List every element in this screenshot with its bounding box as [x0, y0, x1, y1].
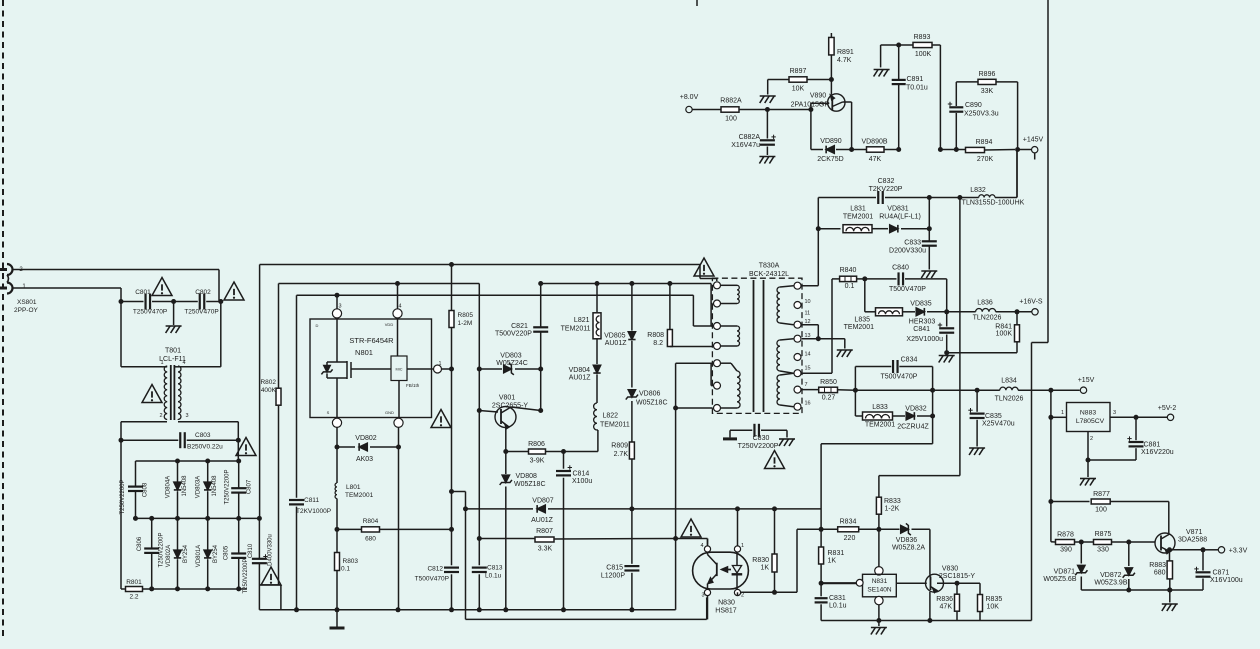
svg-text:L832: L832 — [970, 187, 986, 194]
svg-text:R807: R807 — [536, 528, 553, 535]
svg-text:T500V470P: T500V470P — [415, 576, 449, 583]
svg-text:3-9K: 3-9K — [530, 458, 545, 465]
svg-text:2CZRU4Z: 2CZRU4Z — [897, 424, 929, 431]
svg-text:1-2K: 1-2K — [885, 506, 900, 513]
svg-text:R897: R897 — [790, 68, 807, 75]
svg-text:VD803: VD803 — [500, 353, 522, 360]
svg-text:8.2: 8.2 — [653, 340, 663, 347]
svg-text:X25V470u: X25V470u — [982, 421, 1015, 428]
svg-text:+15V: +15V — [1078, 377, 1095, 384]
svg-text:R830: R830 — [752, 557, 769, 564]
svg-text:GND: GND — [385, 410, 394, 415]
svg-text:STR-F6454R: STR-F6454R — [349, 336, 394, 345]
svg-text:R803: R803 — [343, 558, 359, 565]
svg-text:100: 100 — [725, 116, 737, 123]
svg-text:AU01Z: AU01Z — [569, 375, 592, 382]
svg-text:L836: L836 — [977, 300, 993, 307]
svg-text:T0.01u: T0.01u — [906, 85, 928, 92]
svg-text:AU01Z: AU01Z — [531, 517, 554, 524]
svg-text:47K: 47K — [869, 156, 882, 163]
svg-text:TEM2011: TEM2011 — [561, 326, 591, 333]
svg-text:VD836: VD836 — [896, 537, 918, 544]
svg-text:TLN3155D-100UHK: TLN3155D-100UHK — [962, 200, 1025, 207]
svg-text:3: 3 — [185, 413, 188, 419]
svg-text:C890: C890 — [965, 102, 982, 109]
svg-text:C815: C815 — [606, 565, 623, 572]
svg-text:47K: 47K — [940, 604, 953, 611]
svg-text:AK03: AK03 — [356, 456, 373, 463]
svg-text:R878: R878 — [1057, 532, 1074, 539]
svg-text:C802: C802 — [195, 289, 211, 296]
svg-text:FB/1th: FB/1th — [406, 383, 420, 388]
svg-text:2PP-OY: 2PP-OY — [14, 307, 39, 314]
svg-text:R804: R804 — [363, 518, 379, 525]
svg-text:2SC1815-Y: 2SC1815-Y — [939, 573, 976, 580]
svg-text:N830: N830 — [718, 600, 735, 607]
svg-text:0.1: 0.1 — [845, 283, 855, 290]
svg-text:C832: C832 — [878, 178, 895, 185]
svg-text:C841: C841 — [913, 326, 930, 333]
svg-text:VD806: VD806 — [639, 391, 661, 398]
svg-text:TEM2001: TEM2001 — [843, 214, 873, 221]
svg-text:T500V470P: T500V470P — [889, 286, 926, 293]
svg-text:T2KV220P: T2KV220P — [869, 186, 903, 193]
svg-text:1N5408: 1N5408 — [182, 475, 188, 497]
svg-text:XS801: XS801 — [17, 299, 37, 306]
svg-text:R896: R896 — [979, 71, 996, 78]
svg-text:R893: R893 — [914, 34, 931, 41]
svg-text:BY254: BY254 — [183, 544, 189, 563]
svg-text:100K: 100K — [996, 331, 1013, 338]
svg-text:D: D — [316, 323, 319, 328]
svg-text:VD890B: VD890B — [861, 139, 887, 146]
svg-text:VD835: VD835 — [910, 301, 932, 308]
svg-text:T250V2200P: T250V2200P — [120, 479, 126, 514]
svg-text:V871: V871 — [1186, 529, 1202, 536]
svg-text:C882A: C882A — [739, 134, 761, 141]
svg-text:AU01Z: AU01Z — [605, 340, 628, 347]
svg-text:T250V470P: T250V470P — [133, 309, 167, 316]
svg-text:C831: C831 — [829, 595, 846, 602]
svg-text:L833: L833 — [872, 404, 888, 411]
svg-text:VD805: VD805 — [604, 333, 626, 340]
svg-text:1K: 1K — [828, 558, 837, 565]
svg-text:C833: C833 — [904, 240, 921, 247]
svg-text:V890: V890 — [810, 93, 826, 100]
svg-text:R835: R835 — [986, 596, 1003, 603]
svg-text:1-2M: 1-2M — [458, 320, 473, 327]
svg-text:10: 10 — [805, 299, 811, 305]
svg-text:R833: R833 — [884, 498, 901, 505]
svg-text:VD808: VD808 — [516, 473, 538, 480]
svg-text:R806: R806 — [528, 441, 545, 448]
svg-text:X25V1000u: X25V1000u — [906, 336, 943, 343]
svg-text:C881: C881 — [1144, 442, 1161, 449]
svg-text:SE140N: SE140N — [867, 587, 892, 594]
svg-text:X16V47u: X16V47u — [731, 142, 760, 149]
svg-text:TEM2001: TEM2001 — [865, 422, 895, 429]
svg-text:T500V470P: T500V470P — [881, 374, 918, 381]
svg-text:L801: L801 — [346, 484, 361, 491]
svg-text:C805: C805 — [223, 545, 229, 560]
svg-text:L834: L834 — [1001, 378, 1017, 385]
svg-text:VD832: VD832 — [905, 406, 927, 413]
svg-text:R831: R831 — [828, 550, 845, 557]
svg-text:2: 2 — [741, 593, 744, 599]
svg-text:3.3K: 3.3K — [538, 546, 553, 553]
svg-text:1K: 1K — [760, 565, 769, 572]
svg-text:R834: R834 — [840, 519, 857, 526]
svg-text:16: 16 — [805, 401, 811, 407]
svg-text:R891: R891 — [837, 49, 854, 56]
svg-text:VD831: VD831 — [887, 206, 909, 213]
svg-text:W05Z18C: W05Z18C — [636, 400, 668, 407]
svg-text:+16V-S: +16V-S — [1019, 299, 1042, 306]
svg-text:L831: L831 — [850, 206, 866, 213]
svg-text:10K: 10K — [792, 86, 805, 93]
svg-text:0.1: 0.1 — [341, 566, 350, 573]
svg-text:W05Z5.6B: W05Z5.6B — [1043, 576, 1076, 583]
svg-text:S: S — [327, 410, 330, 415]
svg-text:TLN2026: TLN2026 — [995, 396, 1024, 403]
svg-text:C803: C803 — [195, 432, 211, 439]
svg-text:390: 390 — [1060, 547, 1072, 554]
svg-text:VD802A: VD802A — [166, 545, 172, 567]
svg-text:T250V2200P: T250V2200P — [224, 469, 230, 504]
svg-text:X16V220u: X16V220u — [1141, 449, 1174, 456]
svg-text:C891: C891 — [907, 76, 924, 83]
svg-text:W05Z24C: W05Z24C — [496, 360, 528, 367]
svg-text:C835: C835 — [985, 413, 1002, 420]
svg-text:TLN2026: TLN2026 — [973, 315, 1002, 322]
svg-text:3: 3 — [1113, 410, 1116, 416]
svg-text:2CK75D: 2CK75D — [817, 156, 843, 163]
svg-text:2: 2 — [1090, 436, 1093, 442]
svg-text:C812: C812 — [427, 566, 443, 573]
svg-text:TEM2011: TEM2011 — [600, 422, 630, 429]
svg-text:+3.3V: +3.3V — [1229, 547, 1248, 554]
svg-text:2.7K: 2.7K — [614, 451, 629, 458]
svg-text:W05Z18C: W05Z18C — [514, 481, 546, 488]
svg-text:33K: 33K — [981, 88, 994, 95]
svg-text:D400V330u: D400V330u — [268, 534, 274, 566]
svg-text:R841: R841 — [995, 324, 1012, 331]
svg-text:TEM2001: TEM2001 — [844, 324, 874, 331]
svg-text:3DA2588: 3DA2588 — [1178, 537, 1207, 544]
svg-text:15: 15 — [805, 366, 811, 372]
svg-text:N883: N883 — [1080, 410, 1096, 417]
svg-text:L821: L821 — [574, 317, 590, 324]
svg-text:0.27: 0.27 — [822, 395, 836, 402]
svg-text:R802: R802 — [260, 379, 276, 386]
svg-text:T500V220P: T500V220P — [495, 331, 532, 338]
svg-text:R801: R801 — [126, 579, 142, 586]
svg-text:T250V2200P: T250V2200P — [738, 443, 779, 450]
svg-text:3: 3 — [701, 593, 704, 599]
svg-text:1: 1 — [439, 361, 442, 367]
svg-text:R840: R840 — [840, 267, 857, 274]
svg-text:RU4A(LF-L1): RU4A(LF-L1) — [879, 214, 921, 221]
svg-text:B250V0.22u: B250V0.22u — [187, 444, 223, 451]
svg-text:4: 4 — [182, 360, 185, 366]
svg-text:R836: R836 — [936, 596, 953, 603]
svg-text:1: 1 — [160, 360, 163, 366]
svg-text:1: 1 — [1061, 410, 1064, 416]
svg-text:VDD: VDD — [385, 322, 394, 327]
svg-text:L835: L835 — [854, 317, 870, 324]
svg-text:X100u: X100u — [572, 478, 592, 485]
svg-text:BCK-24312L: BCK-24312L — [749, 271, 789, 278]
svg-text:14: 14 — [805, 352, 811, 358]
svg-text:C814: C814 — [573, 471, 590, 478]
svg-text:TEM2001: TEM2001 — [345, 492, 374, 499]
svg-text:BY254: BY254 — [213, 544, 219, 563]
svg-text:T2KV1000P: T2KV1000P — [296, 508, 331, 515]
svg-text:N801: N801 — [355, 348, 373, 357]
svg-text:4.7K: 4.7K — [837, 57, 852, 64]
svg-text:+5V-2: +5V-2 — [1158, 405, 1177, 412]
svg-text:2: 2 — [159, 413, 162, 419]
svg-text:270K: 270K — [977, 156, 994, 163]
svg-text:L0.1u: L0.1u — [485, 573, 502, 580]
svg-text:2.2: 2.2 — [129, 594, 138, 601]
svg-text:11: 11 — [805, 311, 811, 317]
svg-text:1N5408: 1N5408 — [212, 475, 218, 497]
svg-text:R805: R805 — [458, 312, 474, 319]
svg-text:V830: V830 — [942, 566, 958, 573]
svg-text:L822: L822 — [603, 413, 619, 420]
svg-text:HER303: HER303 — [909, 319, 936, 326]
svg-text:T250V470P: T250V470P — [184, 309, 218, 316]
svg-text:T830A: T830A — [759, 263, 780, 270]
svg-text:MIC: MIC — [396, 368, 403, 372]
svg-text:4: 4 — [700, 543, 703, 549]
svg-text:D200V330u: D200V330u — [889, 248, 926, 255]
svg-text:3: 3 — [338, 304, 341, 310]
svg-text:VD872: VD872 — [1100, 572, 1122, 579]
svg-text:C801: C801 — [135, 289, 151, 296]
svg-text:C806: C806 — [137, 536, 143, 551]
svg-text:W05Z8.2A: W05Z8.2A — [892, 545, 925, 552]
svg-text:VD801A: VD801A — [196, 545, 202, 567]
svg-text:400K: 400K — [261, 387, 277, 394]
svg-text:C807: C807 — [247, 479, 253, 494]
svg-text:+145V: +145V — [1023, 137, 1044, 144]
svg-text:680: 680 — [365, 536, 376, 543]
svg-text:VD890: VD890 — [820, 138, 842, 145]
svg-text:330: 330 — [1097, 547, 1109, 554]
svg-text:V801: V801 — [499, 395, 515, 402]
svg-text:C834: C834 — [901, 357, 918, 364]
svg-text:C821: C821 — [511, 323, 528, 330]
svg-text:VD803A: VD803A — [196, 476, 202, 498]
svg-text:R808: R808 — [647, 332, 664, 339]
svg-text:C830: C830 — [753, 435, 770, 442]
svg-text:100: 100 — [1095, 507, 1107, 514]
svg-text:VD871: VD871 — [1054, 569, 1076, 576]
svg-text:220: 220 — [844, 535, 856, 542]
svg-text:X16V100u: X16V100u — [1210, 577, 1243, 584]
svg-text:VD804A: VD804A — [166, 476, 172, 498]
svg-text:R894: R894 — [976, 139, 993, 146]
svg-text:X250V3.3u: X250V3.3u — [964, 111, 999, 118]
svg-text:+8.0V: +8.0V — [680, 94, 699, 101]
svg-text:R883: R883 — [1149, 562, 1166, 569]
svg-text:C808: C808 — [143, 482, 149, 497]
svg-text:C810: C810 — [248, 543, 254, 558]
svg-text:VD804: VD804 — [569, 367, 591, 374]
svg-text:T250V2200P: T250V2200P — [159, 532, 165, 567]
svg-text:C813: C813 — [487, 565, 503, 572]
svg-text:R809: R809 — [611, 443, 628, 450]
svg-text:T250V2200P: T250V2200P — [243, 558, 249, 593]
svg-text:N831: N831 — [872, 578, 888, 585]
svg-text:7: 7 — [805, 382, 808, 388]
svg-text:VD807: VD807 — [532, 498, 554, 505]
svg-text:L0.1u: L0.1u — [829, 603, 847, 610]
svg-text:L1200P: L1200P — [601, 573, 625, 580]
svg-text:C871: C871 — [1213, 570, 1230, 577]
svg-text:R850: R850 — [820, 379, 837, 386]
svg-text:VD802: VD802 — [355, 435, 377, 442]
svg-text:C840: C840 — [892, 265, 909, 272]
svg-text:4: 4 — [398, 304, 401, 310]
svg-text:R875: R875 — [1095, 531, 1112, 538]
svg-text:T801: T801 — [165, 348, 181, 355]
svg-text:R877: R877 — [1093, 491, 1110, 498]
svg-text:HS817: HS817 — [715, 608, 737, 615]
svg-text:10K: 10K — [987, 604, 1000, 611]
svg-text:W05Z3.9B: W05Z3.9B — [1094, 580, 1127, 587]
svg-text:C811: C811 — [304, 497, 319, 504]
svg-text:1: 1 — [741, 543, 744, 549]
svg-text:100K: 100K — [915, 51, 932, 58]
svg-text:680: 680 — [1154, 570, 1166, 577]
svg-text:L7805CV: L7805CV — [1076, 418, 1105, 425]
svg-text:R882A: R882A — [720, 98, 742, 105]
